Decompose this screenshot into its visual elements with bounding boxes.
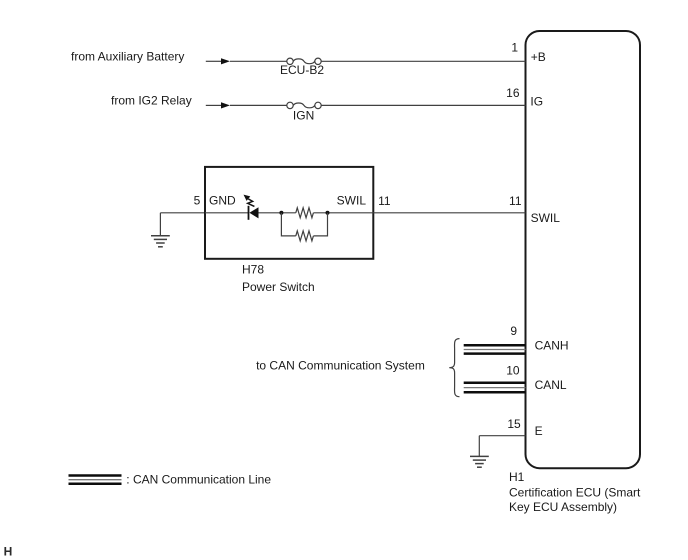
- svg-text:Certification ECU (Smart: Certification ECU (Smart: [509, 485, 641, 499]
- svg-text:E: E: [535, 424, 543, 438]
- svg-text:IGN: IGN: [293, 109, 314, 123]
- svg-text:ECU-B2: ECU-B2: [280, 63, 324, 77]
- svg-text:5: 5: [194, 194, 201, 208]
- svg-text:16: 16: [506, 86, 520, 100]
- svg-text:CANH: CANH: [535, 339, 569, 353]
- svg-text:SWIL: SWIL: [531, 211, 561, 225]
- svg-text:9: 9: [510, 324, 517, 338]
- svg-text:H: H: [4, 545, 13, 559]
- svg-text:CANL: CANL: [535, 378, 567, 392]
- svg-text:+B: +B: [531, 50, 546, 64]
- svg-text:GND: GND: [209, 194, 236, 208]
- svg-text:11: 11: [378, 194, 391, 208]
- svg-text:10: 10: [506, 364, 520, 378]
- svg-text:11: 11: [509, 194, 522, 208]
- svg-text:15: 15: [507, 417, 521, 431]
- svg-text:from IG2 Relay: from IG2 Relay: [111, 94, 192, 108]
- svg-text:H1: H1: [509, 470, 525, 484]
- svg-text:SWIL: SWIL: [337, 194, 367, 208]
- svg-text:Power Switch: Power Switch: [242, 280, 315, 294]
- svg-text:IG: IG: [530, 94, 543, 108]
- svg-text:1: 1: [511, 40, 518, 54]
- svg-text:Key ECU Assembly): Key ECU Assembly): [509, 500, 617, 514]
- svg-text:from Auxiliary Battery: from Auxiliary Battery: [71, 50, 184, 64]
- svg-text:H78: H78: [242, 262, 264, 276]
- svg-text:to CAN Communication System: to CAN Communication System: [256, 359, 425, 373]
- svg-text:: CAN Communication Line: : CAN Communication Line: [126, 473, 271, 487]
